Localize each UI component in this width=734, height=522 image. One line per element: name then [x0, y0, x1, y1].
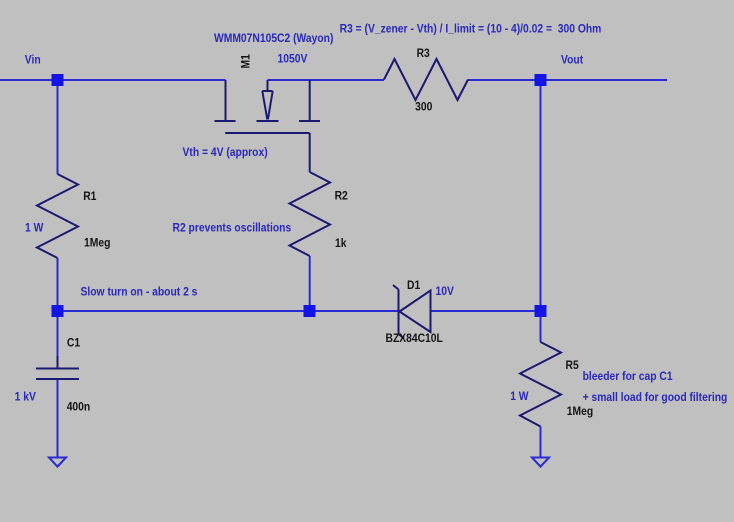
svg-text:BZX84C10L: BZX84C10L	[386, 332, 443, 345]
resistor R5	[520, 342, 561, 427]
svg-text:R5: R5	[566, 359, 579, 372]
svg-text:R3 = (V_zener - Vth) / I_limit: R3 = (V_zener - Vth) / I_limit = (10 - 4…	[340, 23, 602, 36]
resistor R1	[37, 174, 78, 258]
wire top-left from edge to M1 drain	[0, 79, 226, 81]
svg-text:400n: 400n	[67, 401, 91, 414]
capacitor C1	[36, 356, 79, 379]
resistor R2	[290, 172, 331, 256]
wire from R3 to Vout node and right end	[468, 79, 667, 81]
node right middle junction square	[535, 305, 547, 317]
svg-text:1 W: 1 W	[25, 222, 44, 235]
svg-text:C1: C1	[67, 337, 80, 350]
svg-text:R3: R3	[417, 47, 430, 60]
svg-text:1 W: 1 W	[510, 390, 529, 403]
diode D1 zener	[393, 285, 431, 339]
wire R2 bottom to middle node	[309, 256, 311, 311]
svg-text:bleeder for cap C1: bleeder for cap C1	[583, 370, 673, 383]
ground left	[49, 458, 66, 467]
svg-text:+ small load for good filterin: + small load for good filtering	[583, 391, 728, 404]
node R2 middle junction square	[304, 305, 316, 317]
svg-text:Vin: Vin	[25, 54, 41, 67]
svg-text:10V: 10V	[436, 285, 455, 298]
svg-text:R1: R1	[83, 190, 96, 203]
svg-text:R2 prevents oscillations: R2 prevents oscillations	[173, 222, 292, 235]
svg-text:1050V: 1050V	[278, 53, 308, 66]
wire right node down to R5	[540, 311, 542, 342]
svg-text:WMM07N105C2 (Wayon): WMM07N105C2 (Wayon)	[214, 32, 334, 45]
svg-text:1 kV: 1 kV	[15, 391, 37, 404]
transistor M1 nmos symbol	[215, 80, 321, 172]
wire D1 anode to right node	[431, 310, 541, 312]
svg-text:M1: M1	[240, 54, 253, 68]
svg-text:Slow turn on - about 2 s: Slow turn on - about 2 s	[81, 286, 198, 299]
resistor R3	[384, 59, 468, 100]
wire Vin node down to R1	[57, 80, 59, 174]
wire top-right from M1 body/source to R3	[268, 79, 385, 81]
svg-text:Vout: Vout	[561, 54, 583, 67]
node Vout junction square	[535, 74, 547, 86]
svg-text:Vth = 4V (approx): Vth = 4V (approx)	[183, 146, 268, 159]
ground right	[532, 458, 549, 467]
wire R5 bottom to ground	[540, 427, 542, 459]
wire Vout node down to bottom-right node	[540, 80, 542, 311]
svg-text:1Meg: 1Meg	[567, 405, 594, 418]
svg-text:1Meg: 1Meg	[84, 237, 111, 250]
wire C1 bottom to ground	[57, 379, 59, 458]
svg-text:R2: R2	[335, 190, 348, 203]
svg-text:300: 300	[415, 101, 432, 114]
node left middle junction square	[52, 305, 64, 317]
node Vin junction square	[52, 74, 64, 86]
wire middle rail left node to D1 cathode	[58, 310, 399, 312]
svg-text:1k: 1k	[335, 237, 347, 250]
svg-text:D1: D1	[407, 279, 420, 292]
wire R1 bottom to node to C1	[57, 258, 59, 362]
